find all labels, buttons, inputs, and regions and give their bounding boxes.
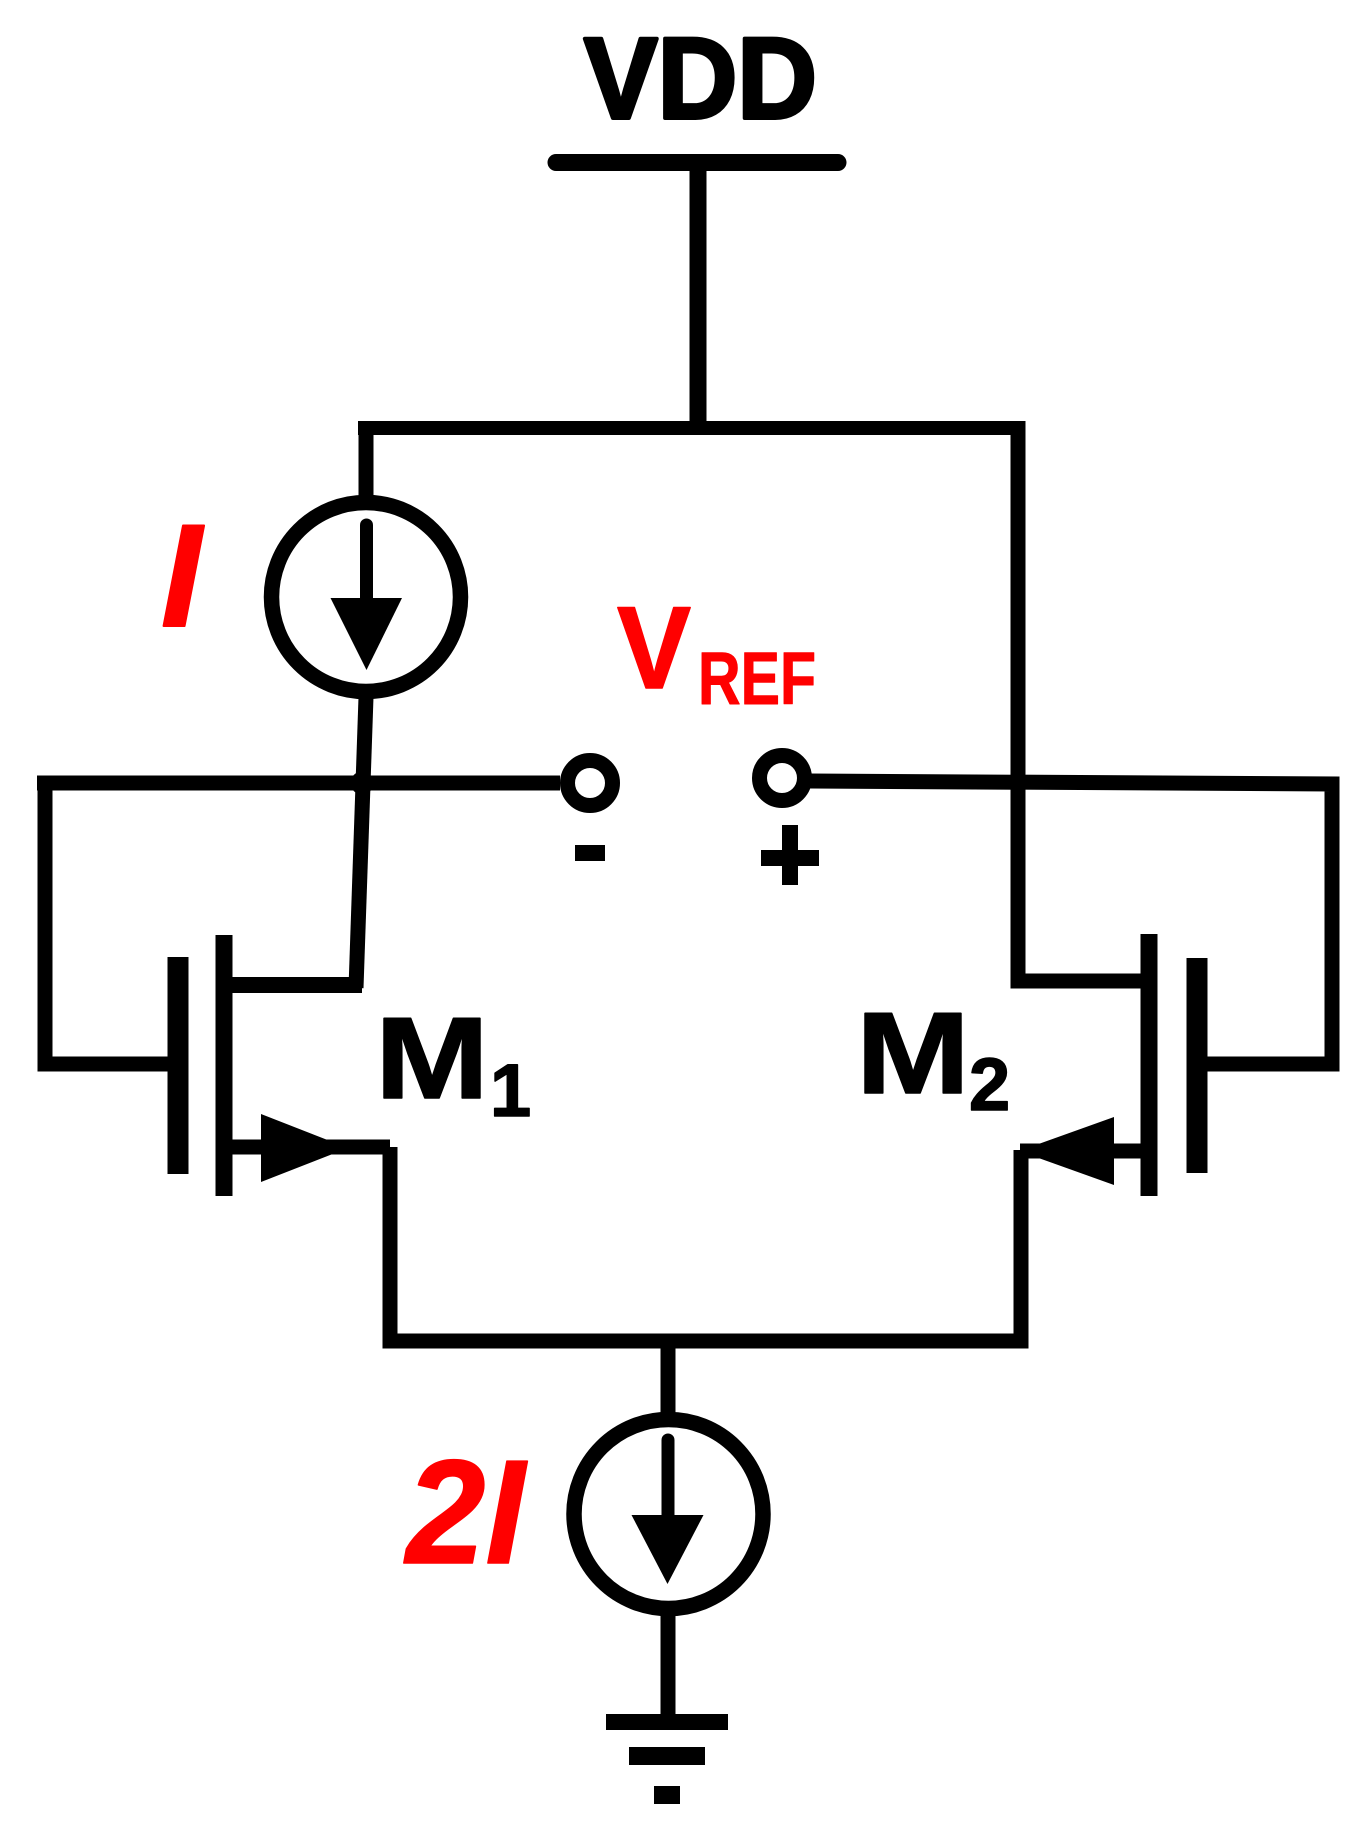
svg-text:2I: 2I	[403, 1430, 528, 1595]
svg-text:M: M	[375, 993, 489, 1123]
svg-text:I: I	[161, 494, 205, 657]
svg-text:V: V	[617, 582, 691, 713]
svg-text:VDD: VDD	[584, 15, 817, 143]
svg-text:2: 2	[969, 1043, 1010, 1126]
svg-text:1: 1	[490, 1049, 531, 1132]
svg-text:M: M	[856, 988, 970, 1118]
svg-text:REF: REF	[698, 637, 816, 720]
